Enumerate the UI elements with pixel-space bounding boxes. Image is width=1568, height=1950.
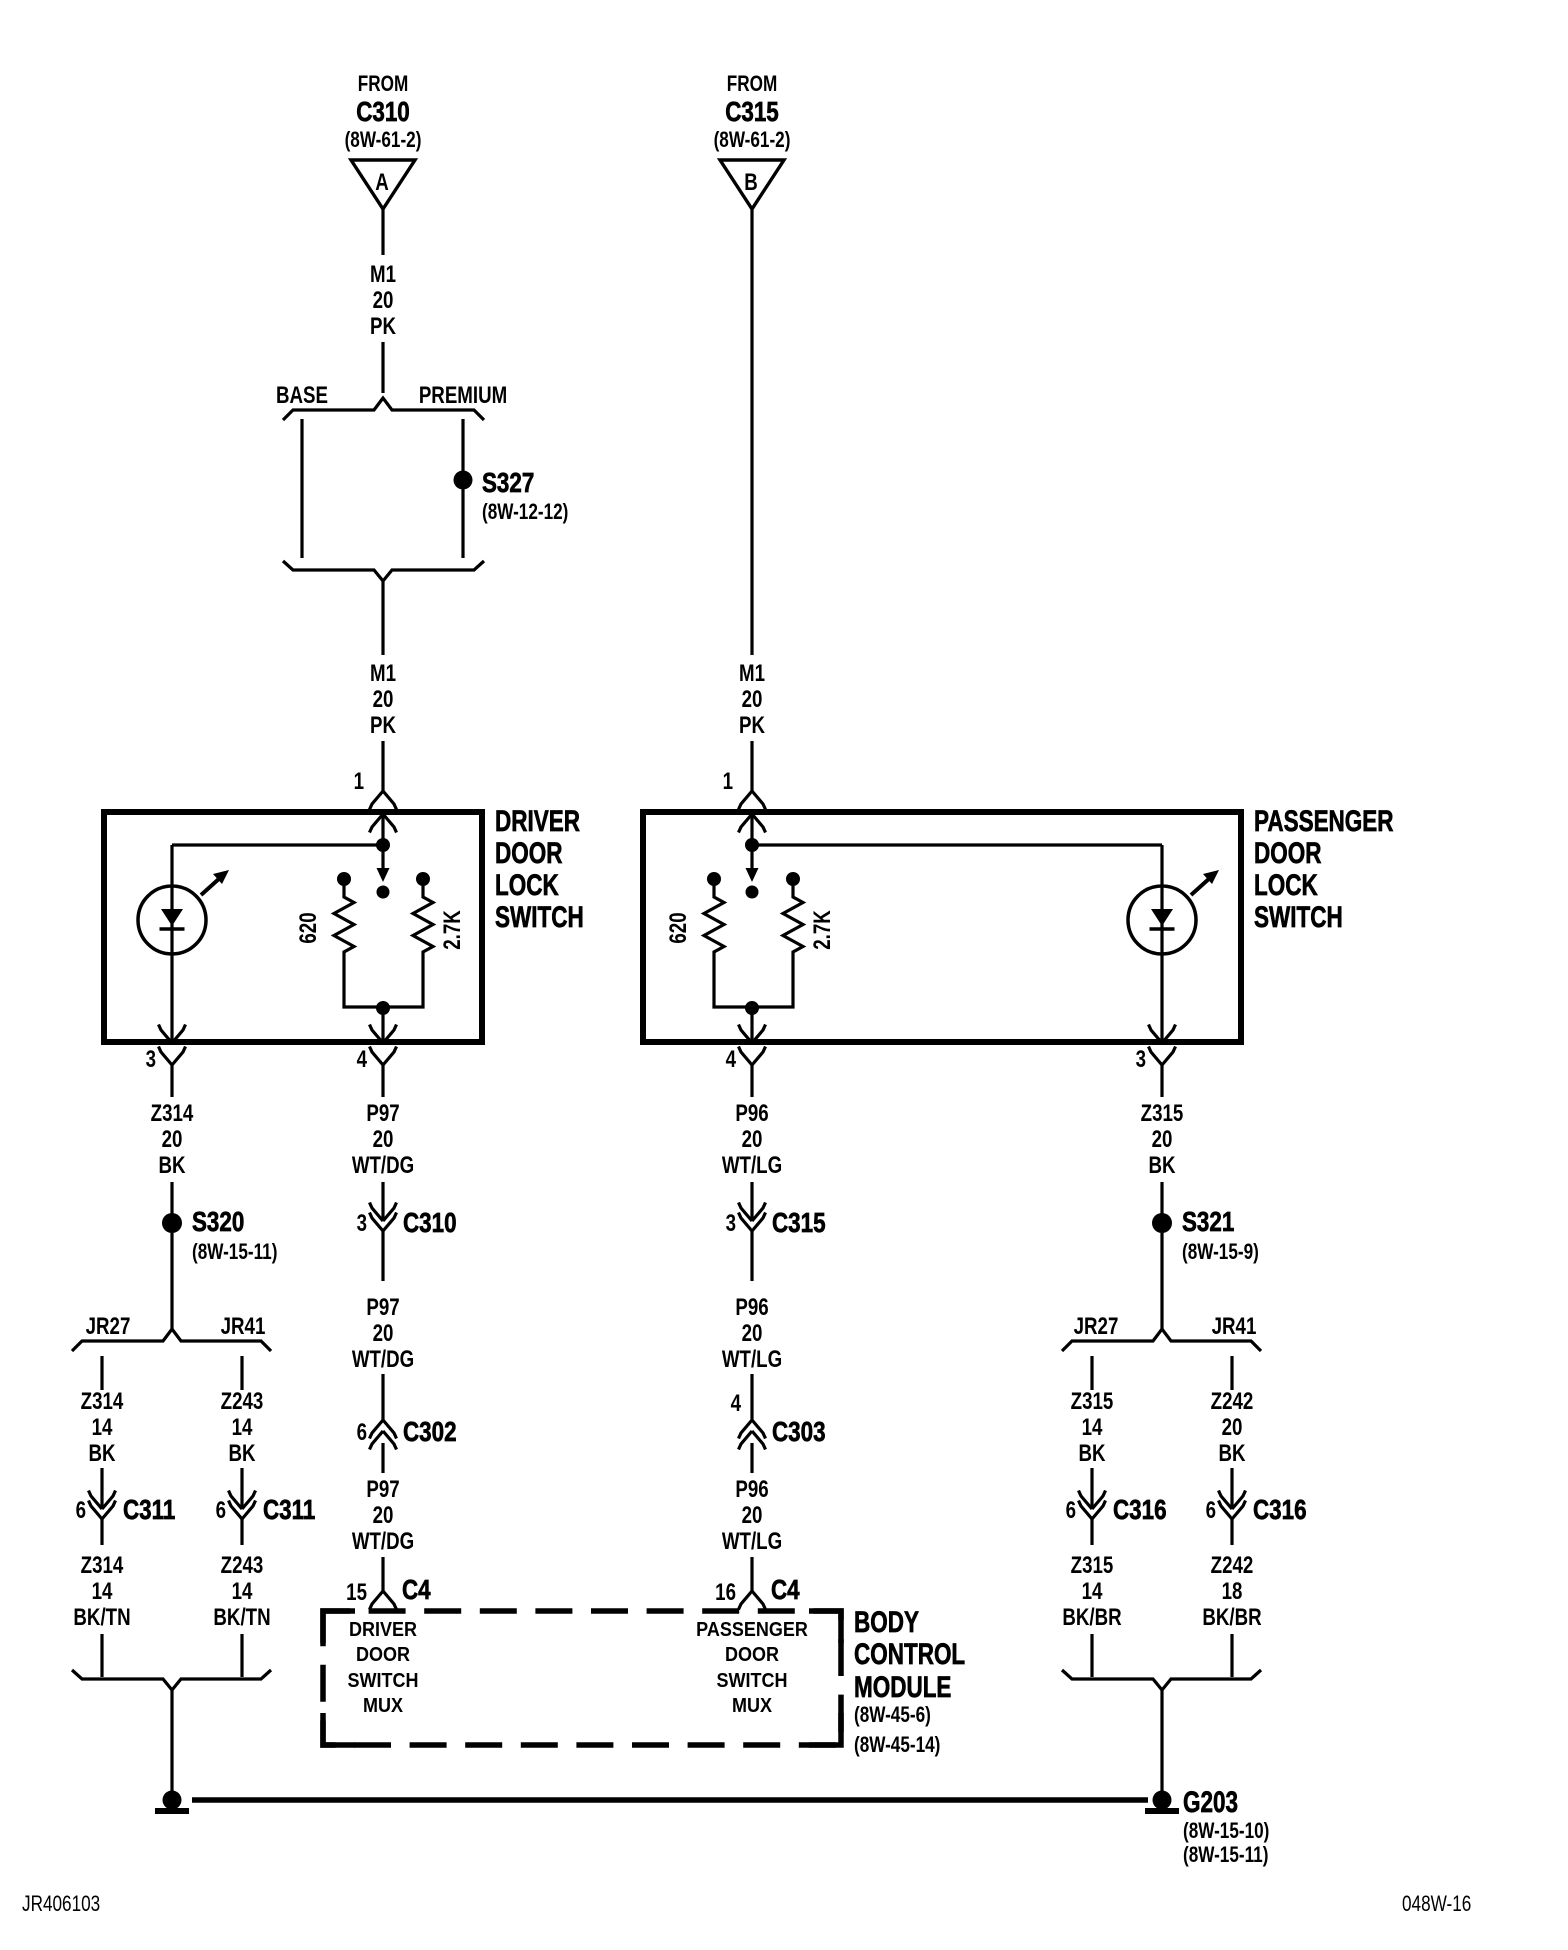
LED indicator lamp (driver): [138, 870, 229, 954]
connector C311 at x=102: [89, 1491, 116, 1510]
svg-text:C311: C311: [263, 1495, 315, 1526]
svg-text:20: 20: [162, 1126, 183, 1153]
svg-text:(8W-15-10): (8W-15-10): [1183, 1819, 1269, 1844]
svg-text:C316: C316: [1253, 1495, 1307, 1526]
connector C4 pin 16: [739, 1591, 766, 1610]
svg-text:3: 3: [146, 1046, 156, 1073]
svg-text:MODULE: MODULE: [854, 1670, 951, 1704]
pin 4 connector at x=752: [739, 1025, 766, 1044]
wire below C316 at x=1232: [1230, 1519, 1233, 1545]
wire junction to LED branch (passenger): [752, 843, 1162, 846]
resistor 620 (driver): [337, 872, 351, 886]
svg-text:C303: C303: [772, 1417, 826, 1448]
pin 4 connector at x=383: [370, 1025, 397, 1044]
svg-text:14: 14: [1082, 1414, 1103, 1441]
wire into C302: [381, 1374, 384, 1420]
svg-text:JR27: JR27: [1074, 1313, 1119, 1340]
svg-text:SWITCH: SWITCH: [495, 900, 584, 934]
resistor 2.7K (driver): [416, 872, 430, 886]
pin 3 connector at x=1162: [1149, 1025, 1176, 1044]
wire into C310: [381, 1182, 384, 1221]
svg-text:JR41: JR41: [1212, 1313, 1257, 1340]
brace merge BASE/PREMIUM: [283, 561, 484, 581]
svg-text:Z243: Z243: [221, 1388, 264, 1415]
svg-text:FROM: FROM: [727, 72, 778, 97]
wire below C302: [381, 1443, 384, 1473]
svg-text:WT/LG: WT/LG: [722, 1346, 782, 1373]
svg-text:DOOR: DOOR: [725, 1644, 779, 1666]
svg-text:14: 14: [1082, 1578, 1103, 1605]
wire S321 to split brace: [1160, 1233, 1163, 1330]
svg-text:(8W-15-11): (8W-15-11): [1183, 1843, 1268, 1868]
off-page connector triangle A: [351, 160, 415, 209]
ground G203: [1153, 1791, 1172, 1810]
branch wire below brace x=102: [100, 1356, 103, 1390]
svg-text:BK: BK: [1148, 1152, 1175, 1179]
wire M1 from triangle A: [381, 209, 384, 255]
svg-text:S321: S321: [1182, 1207, 1234, 1238]
svg-text:20: 20: [742, 1126, 763, 1153]
wire into BCM pin 15: [381, 1557, 384, 1591]
svg-text:6: 6: [1066, 1497, 1076, 1524]
passenger door lock switch box: [643, 812, 1241, 1042]
svg-text:6: 6: [1206, 1497, 1216, 1524]
svg-text:WT/LG: WT/LG: [722, 1528, 782, 1555]
svg-text:BK: BK: [158, 1152, 185, 1179]
connector C316 at x=1092: [1079, 1491, 1106, 1510]
svg-text:620: 620: [295, 912, 322, 943]
svg-text:WT/DG: WT/DG: [352, 1152, 414, 1179]
ground symbol (left): [163, 1791, 182, 1810]
svg-text:BK: BK: [1078, 1440, 1105, 1467]
svg-text:B: B: [744, 169, 758, 196]
svg-text:4: 4: [726, 1046, 736, 1073]
pin 1 connector (passenger): [739, 791, 766, 810]
svg-text:20: 20: [373, 287, 394, 314]
switch wiper arrow (driver): [381, 845, 384, 869]
svg-text:C4: C4: [771, 1575, 800, 1606]
svg-text:3: 3: [1136, 1046, 1146, 1073]
svg-text:20: 20: [373, 686, 394, 713]
svg-text:P96: P96: [735, 1294, 768, 1321]
wire to splice S321: [1160, 1182, 1163, 1214]
wire to splice S320: [170, 1182, 173, 1214]
resistor junction to pin 4 (passenger): [745, 1001, 759, 1015]
svg-text:CONTROL: CONTROL: [854, 1637, 965, 1671]
svg-text:M1: M1: [370, 261, 396, 288]
svg-text:18: 18: [1222, 1578, 1243, 1605]
wire Z242 branch to merge brace: [1230, 1634, 1233, 1677]
svg-text:P97: P97: [366, 1100, 399, 1127]
LED indicator lamp (passenger): [1128, 870, 1219, 954]
svg-text:20: 20: [1152, 1126, 1173, 1153]
merge brace (right): [1062, 1670, 1261, 1690]
svg-text:(8W-15-11): (8W-15-11): [192, 1240, 277, 1265]
wire to passenger switch pin 1: [750, 741, 753, 791]
svg-text:M1: M1: [370, 660, 396, 687]
svg-text:PREMIUM: PREMIUM: [419, 382, 507, 409]
svg-text:14: 14: [232, 1578, 253, 1605]
split brace JR27/JR41 (right): [1062, 1329, 1261, 1351]
brace split BASE/PREMIUM: [283, 398, 484, 420]
svg-text:C315: C315: [772, 1208, 826, 1239]
svg-text:BK: BK: [1218, 1440, 1245, 1467]
svg-text:Z314: Z314: [81, 1552, 124, 1579]
svg-text:BK: BK: [88, 1440, 115, 1467]
ground bus wire: [192, 1797, 1148, 1803]
wire Z315 branch to merge brace: [1090, 1634, 1093, 1677]
svg-text:6: 6: [357, 1419, 367, 1446]
svg-text:WT/DG: WT/DG: [352, 1528, 414, 1555]
svg-text:Z315: Z315: [1071, 1388, 1114, 1415]
body control module dashed box: [323, 1611, 841, 1745]
svg-text:20: 20: [742, 686, 763, 713]
switch wiper arrow (passenger): [750, 845, 753, 869]
svg-text:BASE: BASE: [276, 382, 328, 409]
svg-text:2.7K: 2.7K: [439, 910, 466, 950]
svg-text:P97: P97: [366, 1476, 399, 1503]
connector C311 at x=242: [229, 1491, 256, 1510]
resistor 2.7K (passenger): [786, 872, 800, 886]
svg-text:PK: PK: [739, 712, 765, 739]
wire M1 from triangle B: [750, 209, 753, 655]
connector C315: [739, 1203, 766, 1222]
wire into BCM pin 16: [750, 1557, 753, 1591]
svg-text:DOOR: DOOR: [1254, 836, 1321, 870]
svg-text:1: 1: [723, 768, 733, 795]
pin 1 connector (driver): [370, 791, 397, 810]
wire pin1 to junction (passenger): [750, 814, 753, 847]
wire below C316 at x=1092: [1090, 1519, 1093, 1545]
wire into C315: [750, 1182, 753, 1221]
wire merge to ground (right): [1160, 1690, 1163, 1791]
connector C303: [739, 1420, 766, 1439]
split brace JR27/JR41 (left): [72, 1329, 271, 1351]
svg-text:C302: C302: [403, 1417, 457, 1448]
svg-text:620: 620: [665, 912, 692, 943]
wire BASE branch: [300, 419, 303, 558]
svg-text:SWITCH: SWITCH: [717, 1670, 788, 1692]
svg-text:P96: P96: [735, 1476, 768, 1503]
connector C310: [370, 1203, 397, 1222]
svg-text:6: 6: [76, 1497, 86, 1524]
wire S320 to split brace: [170, 1233, 173, 1330]
connector C4 pin 15: [370, 1591, 397, 1610]
svg-text:PK: PK: [370, 712, 396, 739]
splice S320: [162, 1213, 182, 1233]
svg-text:(8W-45-6): (8W-45-6): [854, 1703, 931, 1728]
branch wire below brace x=242: [240, 1356, 243, 1390]
wire below C315: [750, 1231, 753, 1281]
wire below C311 at x=102: [100, 1519, 103, 1545]
wire below C311 at x=242: [240, 1519, 243, 1545]
branch wire below brace x=1092: [1090, 1356, 1093, 1390]
svg-text:SWITCH: SWITCH: [1254, 900, 1343, 934]
svg-text:Z243: Z243: [221, 1552, 264, 1579]
splice S321: [1152, 1213, 1172, 1233]
svg-text:20: 20: [742, 1320, 763, 1347]
svg-text:C315: C315: [725, 97, 779, 128]
svg-text:MUX: MUX: [732, 1695, 772, 1717]
wire Z243 branch to merge brace: [240, 1634, 243, 1677]
svg-text:G203: G203: [1183, 1785, 1238, 1819]
switch contact dot (driver): [377, 886, 390, 899]
svg-text:4: 4: [357, 1046, 367, 1073]
svg-text:14: 14: [92, 1578, 113, 1605]
resistor 620 (passenger): [707, 872, 721, 886]
svg-text:14: 14: [92, 1414, 113, 1441]
svg-text:FROM: FROM: [358, 72, 409, 97]
svg-text:C4: C4: [402, 1575, 431, 1606]
wire into C316 at x=1092: [1090, 1468, 1093, 1509]
svg-text:DOOR: DOOR: [495, 836, 562, 870]
wire into C316 at x=1232: [1230, 1468, 1233, 1509]
svg-text:A: A: [375, 169, 389, 196]
resistor junction to pin 4 (driver): [376, 1001, 390, 1015]
junction node (driver): [376, 838, 390, 852]
svg-text:C310: C310: [356, 97, 410, 128]
svg-text:BK: BK: [228, 1440, 255, 1467]
driver door lock switch box: [104, 812, 482, 1042]
svg-text:2.7K: 2.7K: [809, 910, 836, 950]
wire into C311 at x=102: [100, 1468, 103, 1509]
svg-text:16: 16: [715, 1579, 736, 1606]
svg-text:4: 4: [731, 1390, 741, 1417]
splice S327: [454, 471, 473, 490]
svg-text:P97: P97: [366, 1294, 399, 1321]
wire: [381, 342, 384, 393]
wire into C303: [750, 1374, 753, 1420]
svg-text:(8W-45-14): (8W-45-14): [854, 1733, 940, 1758]
svg-text:Z242: Z242: [1211, 1552, 1254, 1579]
svg-text:20: 20: [742, 1502, 763, 1529]
svg-text:DRIVER: DRIVER: [349, 1619, 417, 1641]
svg-text:C310: C310: [403, 1208, 457, 1239]
svg-text:BK/BR: BK/BR: [1202, 1604, 1262, 1631]
svg-text:(8W-12-12): (8W-12-12): [482, 500, 568, 525]
wire below C303: [750, 1443, 753, 1473]
wire merge to ground (left): [170, 1690, 173, 1791]
svg-text:BK/BR: BK/BR: [1062, 1604, 1122, 1631]
svg-text:WT/DG: WT/DG: [352, 1346, 414, 1373]
svg-text:PK: PK: [370, 313, 396, 340]
svg-text:JR41: JR41: [221, 1313, 266, 1340]
svg-text:LOCK: LOCK: [1254, 868, 1318, 902]
switch contact dot (passenger): [746, 886, 759, 899]
wire Z314 branch to merge brace: [100, 1634, 103, 1677]
svg-text:PASSENGER: PASSENGER: [1254, 804, 1394, 838]
svg-text:BK/TN: BK/TN: [73, 1604, 130, 1631]
svg-text:(8W-15-9): (8W-15-9): [1182, 1240, 1259, 1265]
svg-text:Z242: Z242: [1211, 1388, 1254, 1415]
svg-text:LOCK: LOCK: [495, 868, 559, 902]
svg-text:Z314: Z314: [81, 1388, 124, 1415]
svg-text:20: 20: [1222, 1414, 1243, 1441]
svg-text:Z315: Z315: [1141, 1100, 1184, 1127]
svg-text:S320: S320: [192, 1207, 244, 1238]
svg-text:BODY: BODY: [854, 1605, 919, 1639]
svg-text:DRIVER: DRIVER: [495, 804, 580, 838]
wire to driver switch pin 1: [381, 741, 384, 791]
svg-text:3: 3: [357, 1210, 367, 1237]
branch wire below brace x=1232: [1230, 1356, 1233, 1390]
svg-text:C311: C311: [123, 1495, 175, 1526]
svg-text:6: 6: [216, 1497, 226, 1524]
svg-text:MUX: MUX: [363, 1695, 403, 1717]
junction node (passenger): [745, 838, 759, 852]
svg-text:SWITCH: SWITCH: [348, 1670, 419, 1692]
wire junction to LED branch (driver): [172, 843, 383, 846]
wire: [381, 581, 384, 655]
svg-text:PASSENGER: PASSENGER: [696, 1619, 808, 1641]
wire PREMIUM branch: [461, 419, 464, 558]
svg-text:14: 14: [232, 1414, 253, 1441]
connector C302: [370, 1420, 397, 1439]
svg-text:048W-16: 048W-16: [1402, 1892, 1471, 1917]
svg-text:Z315: Z315: [1071, 1552, 1114, 1579]
svg-text:C316: C316: [1113, 1495, 1167, 1526]
svg-text:S327: S327: [482, 468, 534, 499]
svg-text:BK/TN: BK/TN: [213, 1604, 270, 1631]
svg-text:20: 20: [373, 1502, 394, 1529]
wire pin1 to junction (driver): [381, 814, 384, 847]
svg-text:1: 1: [354, 768, 364, 795]
svg-text:M1: M1: [739, 660, 765, 687]
svg-text:DOOR: DOOR: [356, 1644, 410, 1666]
svg-text:15: 15: [346, 1579, 367, 1606]
svg-text:(8W-61-2): (8W-61-2): [714, 128, 791, 153]
svg-text:(8W-61-2): (8W-61-2): [345, 128, 422, 153]
off-page connector triangle B: [720, 160, 784, 209]
svg-text:20: 20: [373, 1126, 394, 1153]
svg-text:3: 3: [726, 1210, 736, 1237]
svg-text:WT/LG: WT/LG: [722, 1152, 782, 1179]
svg-text:P96: P96: [735, 1100, 768, 1127]
svg-text:Z314: Z314: [151, 1100, 194, 1127]
wire into C311 at x=242: [240, 1468, 243, 1509]
merge brace (left): [72, 1670, 271, 1690]
wire below C310: [381, 1231, 384, 1281]
connector C316 at x=1232: [1219, 1491, 1246, 1510]
svg-text:20: 20: [373, 1320, 394, 1347]
pin 3 connector at x=172: [159, 1025, 186, 1044]
svg-text:JR27: JR27: [86, 1313, 131, 1340]
svg-text:JR406103: JR406103: [22, 1892, 100, 1917]
